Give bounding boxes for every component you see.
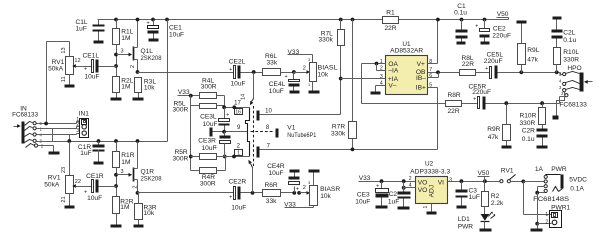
svg-text:16: 16: [235, 109, 241, 115]
svg-text:10uF: 10uF: [269, 88, 284, 95]
svg-text:1uF: 1uF: [388, 198, 399, 205]
regulator U2 ADP3338-3.3 body: [410, 161, 450, 204]
wire U1 pin8 V+ riser: [428, 18, 440, 64]
tube V1 pin 17 label: [234, 101, 241, 107]
wire jack contact3 to IN1 pin3: [37, 134, 80, 142]
tube V1 pin 16 boxed label: [235, 109, 243, 116]
svg-text:CE4L: CE4L: [269, 81, 286, 88]
svg-text:CE2L: CE2L: [229, 58, 246, 65]
resistor R5L (300R): [173, 100, 225, 113]
capacitor CE3L (10uF): [200, 108, 229, 132]
svg-text:5VDC: 5VDC: [569, 177, 587, 184]
svg-text:PWR: PWR: [458, 224, 474, 231]
node junction to RV1 upper: [44, 122, 48, 126]
svg-text:U2: U2: [425, 161, 434, 168]
trimmer BIASL (10k): [303, 57, 338, 91]
resistor R1R (1M): [113, 142, 135, 197]
tube V1 pin 9 label: [237, 125, 241, 131]
svg-text:10uF: 10uF: [269, 170, 284, 177]
net label V50 (switch node): [478, 170, 490, 181]
svg-text:11: 11: [61, 76, 67, 82]
svg-text:1uF: 1uF: [469, 194, 480, 201]
svg-text:CE3R: CE3R: [198, 138, 216, 145]
ground below R9R: [502, 146, 512, 149]
wire jack contact1 to IN1 pin1: [37, 122, 80, 124]
capacitor CE5L (220uF): [476, 52, 504, 79]
ground below C1L: [94, 41, 104, 44]
resistor R6R (33k): [263, 182, 281, 205]
svg-text:1: 1: [423, 206, 429, 209]
ground below RV1 upper: [65, 85, 75, 88]
svg-text:47k: 47k: [527, 57, 538, 64]
wire V33 bus vertical: [189, 96, 193, 171]
ground below CE1: [149, 39, 159, 42]
resistor R2R (1M): [113, 197, 134, 225]
svg-text:IN1: IN1: [79, 110, 90, 117]
svg-text:300R: 300R: [173, 156, 189, 163]
svg-text:22R: 22R: [448, 108, 460, 115]
resistor R3R (10k): [135, 193, 157, 225]
wire HPO sleeve to ground: [557, 92, 565, 116]
svg-text:2: 2: [303, 185, 306, 191]
svg-text:2: 2: [545, 220, 548, 226]
resistor R1 (22R, inline in rail): [383, 10, 399, 32]
tube V1 grid dashed line: [253, 106, 255, 166]
ground below CE3: [376, 206, 388, 209]
ground below HPO: [553, 116, 559, 120]
tube V1 anode bar A (pin 10): [257, 111, 260, 121]
tube V1 pin 14 label: [241, 94, 247, 100]
op-amp U1 right pin labels: [416, 61, 426, 92]
resistor R1L (1M): [113, 18, 134, 77]
wire U1 pin6 feedback: [428, 73, 439, 78]
svg-text:CE3: CE3: [357, 191, 370, 198]
svg-text:0.1A: 0.1A: [570, 186, 584, 193]
switch in RV1 (power switch): [500, 168, 524, 183]
ground below C1: [457, 42, 466, 45]
svg-text:330k: 330k: [331, 131, 346, 138]
capacitor C1L (1uF rail decoupling): [76, 19, 105, 40]
svg-text:50kA: 50kA: [44, 181, 60, 188]
op-amp U1 left pin labels: [388, 61, 399, 90]
wire U1 pin2 feedback: [377, 64, 386, 71]
svg-text:1M: 1M: [121, 159, 130, 166]
ground below BIASL: [309, 91, 320, 94]
svg-text:21: 21: [61, 196, 67, 202]
resistor R3L (10k): [135, 78, 157, 98]
svg-text:2: 2: [133, 186, 139, 189]
svg-text:50kA: 50kA: [48, 66, 64, 73]
svg-text:10uF: 10uF: [355, 199, 370, 206]
svg-text:2: 2: [130, 65, 136, 68]
svg-text:0.1u: 0.1u: [522, 136, 535, 143]
net label V33 (filament): [178, 89, 200, 98]
wire sleeve to ground: [537, 224, 539, 229]
resistor R10R (330R): [520, 104, 546, 127]
wire gate Q1R with pin 3: [117, 169, 133, 177]
svg-text:220uF: 220uF: [492, 32, 511, 39]
svg-text:300R: 300R: [201, 83, 217, 90]
resistor R4R (300R): [191, 157, 226, 188]
resistor R2 (2.2k): [482, 182, 505, 207]
connector IN1 (3-pin header): [76, 110, 89, 137]
wire R output: [486, 97, 565, 106]
svg-text:+: +: [229, 67, 232, 73]
svg-text:BIASR: BIASR: [320, 186, 340, 193]
svg-text:+: +: [147, 21, 150, 27]
svg-text:NuTube6P1: NuTube6P1: [287, 132, 316, 139]
ground below RV1 lower: [65, 206, 75, 209]
tube V1 NuTube6P1 outline: [246, 108, 250, 157]
svg-text:IB+: IB+: [416, 85, 426, 92]
resistor R7L (330k): [318, 18, 344, 115]
svg-text:13: 13: [61, 47, 67, 53]
svg-text:R9L: R9L: [527, 47, 539, 54]
svg-text:PWR: PWR: [551, 166, 567, 173]
svg-text:+: +: [285, 74, 288, 80]
connector HPO jack (FC68133): [559, 65, 593, 109]
wire U1 pin3 +IA input: [341, 78, 386, 80]
tube V1 grid2 dashed line pin 8: [251, 125, 279, 138]
svg-text:10k: 10k: [144, 85, 155, 92]
svg-text:R10L: R10L: [563, 49, 579, 56]
svg-text:+: +: [473, 97, 476, 103]
node junction R7L / opamp A input: [339, 77, 343, 81]
svg-text:ADP3338-3.3: ADP3338-3.3: [410, 168, 450, 175]
svg-text:V33: V33: [359, 175, 371, 182]
svg-text:330R: 330R: [520, 120, 536, 127]
svg-text:1M: 1M: [121, 84, 130, 91]
wire L output: [498, 70, 563, 74]
wire pin1/2 node: [225, 155, 250, 159]
capacitor C2R (0.1u): [522, 125, 548, 146]
tube V1 pin 1 boxed label: [235, 150, 243, 157]
svg-text:0.1u: 0.1u: [454, 9, 467, 16]
svg-text:RV1: RV1: [501, 168, 514, 175]
capacitor CE4L (10uF): [269, 73, 300, 96]
wire pin 14 drop: [250, 73, 254, 106]
wire jack contact4 / lower bus: [37, 141, 168, 143]
svg-text:C2R: C2R: [522, 128, 535, 135]
wire pin17 node: [222, 105, 249, 109]
wire U1 pin1 OA: [362, 62, 386, 66]
svg-text:CE3L: CE3L: [200, 114, 217, 121]
connector PWR1 (2-pin header): [545, 205, 570, 228]
resistor R8L (22R): [460, 55, 476, 75]
capacitor CE3R (10uF): [198, 132, 230, 157]
capacitor C1 (0.1u decoupling): [454, 3, 467, 41]
wire CE2R to R6R: [241, 191, 263, 195]
node junction CE1R: [114, 184, 118, 188]
capacitor CE1L (10uF coupling): [79, 53, 117, 81]
wire R6L to BIASL: [281, 70, 310, 74]
node junction V50/PWR: [521, 180, 525, 184]
svg-text:VO: VO: [418, 187, 428, 194]
svg-text:C2: C2: [389, 191, 398, 198]
svg-text:FC68148S: FC68148S: [533, 196, 570, 203]
svg-text:0.1u: 0.1u: [563, 37, 576, 44]
resistor R2L (1M): [113, 77, 134, 98]
wire U2 ADJ to ground: [431, 204, 433, 212]
svg-text:2: 2: [303, 66, 306, 72]
svg-text:+: +: [229, 194, 232, 200]
resistor R9L (47k): [517, 21, 540, 73]
potentiometer RV1 upper (50kA): [47, 42, 81, 124]
net label V33 (BIASR): [284, 202, 313, 209]
svg-text:ADJ: ADJ: [428, 185, 435, 197]
wire PWR to PWR1 pin1: [524, 182, 552, 215]
svg-text:10uF: 10uF: [85, 73, 100, 80]
svg-text:10uF: 10uF: [231, 80, 246, 87]
wire jack sleeve to ground: [38, 146, 54, 152]
svg-text:33k: 33k: [266, 198, 277, 205]
svg-text:2SK208: 2SK208: [141, 55, 162, 62]
svg-text:CE2R: CE2R: [229, 179, 247, 186]
svg-text:1uF: 1uF: [76, 26, 87, 33]
ground below C3: [457, 206, 467, 209]
svg-text:22R: 22R: [384, 25, 396, 32]
svg-text:LD1: LD1: [458, 216, 470, 223]
connector IN jack (FC68133): [12, 106, 44, 149]
capacitor CE2R (10uF): [229, 179, 247, 212]
capacitor C2 (1uF): [388, 179, 411, 206]
wire U1 pin7 OB output: [428, 70, 460, 74]
svg-text:2: 2: [409, 176, 412, 182]
tube V1 pin 10 wire: [260, 108, 341, 114]
node junction Q1R source: [136, 191, 140, 195]
svg-text:10k: 10k: [320, 193, 331, 200]
capacitor CE1 (10uF rail decoupling): [147, 18, 185, 39]
svg-text:10uF: 10uF: [203, 121, 218, 128]
svg-text:VO: VO: [418, 179, 428, 186]
svg-text:330R: 330R: [563, 57, 579, 64]
resistor R10L (330R): [554, 48, 580, 73]
svg-text:6: 6: [429, 73, 432, 79]
svg-text:AD8532AR: AD8532AR: [390, 47, 423, 54]
svg-text:2.2k: 2.2k: [491, 200, 504, 207]
svg-text:1M: 1M: [121, 35, 130, 42]
wire sleeve to PWR1 pin2: [538, 223, 552, 225]
capacitor CE2L (10uF): [229, 58, 246, 87]
svg-text:IB–: IB–: [416, 75, 426, 82]
ground below C2R: [537, 146, 548, 149]
wire Q1L source to CE2L: [138, 72, 234, 74]
svg-text:10uF: 10uF: [169, 31, 184, 38]
svg-text:1uF: 1uF: [80, 150, 91, 157]
ground below C1R: [94, 162, 104, 165]
capacitor C1R (1uF): [78, 142, 105, 162]
svg-text:23: 23: [61, 167, 67, 173]
svg-text:R6R: R6R: [265, 182, 278, 189]
svg-text:3: 3: [449, 178, 452, 184]
svg-text:R1: R1: [386, 10, 395, 17]
transistor Q1L (2SK208 JFET): [130, 18, 162, 73]
resistor R7R (330k): [331, 18, 357, 150]
ground below IN jack: [49, 152, 60, 155]
capacitor CE4R (10uF): [267, 163, 299, 192]
svg-text:VI: VI: [438, 179, 444, 186]
svg-text:+: +: [475, 24, 478, 30]
resistor R5R (300R): [173, 149, 225, 162]
ground left of pin9 (sideways bar): [210, 128, 213, 137]
wire pin 15 rise: [248, 160, 252, 193]
capacitor CE3 (10uF): [355, 179, 388, 205]
ground below LD1: [480, 229, 492, 232]
svg-text:1: 1: [545, 212, 548, 218]
svg-text:2SK208: 2SK208: [141, 176, 162, 183]
svg-text:+: +: [485, 66, 488, 72]
tube V1 anode bar B (pin 7): [257, 147, 260, 158]
svg-text:+: +: [376, 184, 379, 190]
svg-text:12: 12: [74, 58, 80, 64]
resistor R8R (22R): [446, 92, 462, 115]
wire jack contact2 net: [37, 127, 80, 142]
ground above CE4R: [290, 170, 300, 173]
ground below CE4L: [290, 91, 300, 94]
op-amp U1 pin numbers: [380, 59, 432, 89]
ground below U2 ADJ: [427, 212, 437, 215]
svg-text:22R: 22R: [462, 61, 474, 68]
node junctions on lower bus: [67, 139, 139, 143]
trimmer BIASR (10k): [303, 170, 341, 208]
svg-text:FC68133: FC68133: [12, 112, 38, 119]
node junction R1L/gate: [114, 53, 118, 57]
svg-text:+: +: [226, 113, 229, 119]
ground below C2: [398, 207, 410, 210]
svg-text:V1: V1: [287, 125, 295, 132]
svg-text:10: 10: [265, 108, 272, 114]
svg-text:220uF: 220uF: [484, 58, 503, 65]
svg-text:R10R: R10R: [520, 113, 537, 120]
svg-text:10uF: 10uF: [202, 145, 217, 152]
svg-text:C2L: C2L: [563, 30, 575, 37]
capacitor C2L (0.1u) with ground above: [552, 17, 577, 48]
wire U2 pin4: [404, 187, 416, 189]
capacitor CE5R (220uF): [462, 84, 492, 110]
svg-text:1M: 1M: [120, 204, 129, 211]
op-amp U1 AD8532AR body: [386, 41, 428, 95]
capacitor CE2 (220uF decoupling): [475, 18, 511, 42]
svg-text:10uF: 10uF: [87, 195, 102, 202]
tube V1 designator: [287, 125, 316, 139]
net label V33 (regulator output): [359, 175, 416, 182]
wire R6R to BIASR: [281, 191, 310, 195]
potentiometer RV1 lower (50kA): [44, 142, 81, 206]
svg-text:V33: V33: [178, 89, 190, 96]
tube V1 pin 2 label: [237, 144, 241, 150]
ground below R3L: [133, 98, 144, 101]
svg-text:R1R: R1R: [121, 152, 134, 159]
svg-text:3: 3: [76, 128, 79, 134]
capacitor C3 (1uF): [456, 182, 480, 206]
wire OA output route: [362, 64, 446, 104]
transistor Q1R (2SK208 JFET): [133, 142, 162, 193]
net label V33 (BIASL): [288, 49, 313, 63]
svg-text:Q1R: Q1R: [141, 169, 155, 176]
node junction R7R / opamp B input: [351, 148, 355, 152]
wire jack sleeve down: [535, 191, 539, 226]
wire U1 pin5 IB+ input: [428, 88, 438, 150]
svg-text:330k: 330k: [318, 37, 333, 44]
svg-text:300R: 300R: [200, 180, 216, 187]
wire top supply rail: [98, 19, 509, 21]
svg-text:3: 3: [120, 169, 123, 175]
svg-text:300R: 300R: [173, 106, 189, 113]
svg-text:R8R: R8R: [448, 92, 461, 99]
svg-text:–IA: –IA: [388, 68, 398, 75]
ground below R2R: [111, 225, 122, 228]
wire Q1R source to CE2R: [138, 192, 234, 194]
svg-text:220uF: 220uF: [472, 89, 491, 96]
node junction CE1L: [114, 64, 118, 68]
capacitor CE1R (10uF coupling): [79, 173, 117, 202]
node junction Q1L source: [136, 70, 140, 74]
wire riser rail to lower bus: [165, 18, 169, 142]
svg-text:3: 3: [120, 49, 123, 55]
svg-text:14: 14: [241, 94, 247, 100]
svg-text:33k: 33k: [267, 60, 278, 67]
resistor R9R (47k): [487, 104, 510, 146]
svg-text:+: +: [84, 67, 87, 73]
svg-text:FC68133: FC68133: [559, 102, 587, 109]
node junction R1R/gate: [114, 173, 118, 177]
regulator U2 pin numbers: [409, 176, 452, 209]
svg-text:+: +: [296, 186, 299, 192]
svg-text:1A: 1A: [535, 166, 544, 173]
wire gate Q1L with pin 3: [117, 49, 133, 57]
svg-text:22: 22: [75, 179, 81, 185]
net label V50 (rail): [497, 11, 509, 19]
ground below R3R: [134, 225, 144, 228]
resistor R4L (300R): [200, 77, 225, 107]
wire U1 pin4 V- to ground: [376, 86, 386, 92]
svg-text:Q1L: Q1L: [141, 48, 154, 55]
wire CE2L to R6L: [241, 70, 263, 74]
svg-text:R9R: R9R: [487, 126, 500, 133]
svg-text:47k: 47k: [488, 134, 499, 141]
LED LD1 PWR: [458, 207, 495, 231]
svg-text:10k: 10k: [144, 210, 155, 217]
svg-text:17: 17: [234, 101, 241, 107]
svg-text:10k: 10k: [318, 71, 329, 78]
resistor R6L (33k): [263, 53, 281, 76]
svg-text:1: 1: [237, 151, 240, 157]
svg-text:HPO: HPO: [567, 65, 581, 72]
ground below R2L: [111, 98, 122, 101]
svg-text:10uF: 10uF: [231, 205, 246, 212]
ground below PWR jack: [531, 229, 543, 232]
svg-text:V–: V–: [388, 83, 396, 90]
wire pin9 line: [213, 130, 248, 159]
tube V1 pin 7 wire: [260, 144, 438, 150]
wire U2 VI net V50: [448, 179, 500, 183]
svg-text:V+: V+: [417, 61, 425, 68]
svg-text:CE1R: CE1R: [86, 173, 104, 180]
connector PWR DC jack (FC68148S): [524, 166, 588, 203]
ground below U1 pin4: [371, 92, 381, 95]
svg-text:CE1L: CE1L: [83, 53, 100, 60]
ground below CE2: [481, 42, 490, 45]
